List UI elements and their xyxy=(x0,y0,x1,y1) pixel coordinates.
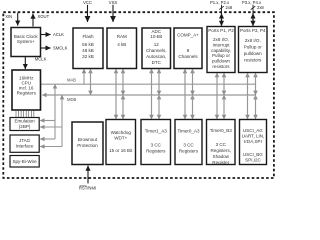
svg-text:COMP_A+: COMP_A+ xyxy=(177,32,199,37)
svg-text:MAB: MAB xyxy=(67,78,76,83)
svg-text:pulldown: pulldown xyxy=(244,51,262,56)
svg-text:VCC: VCC xyxy=(83,0,92,5)
svg-text:Registers,: Registers, xyxy=(211,148,231,153)
svg-text:Register: Register xyxy=(212,160,229,165)
svg-text:Registers: Registers xyxy=(146,149,166,154)
svg-text:Ports P1, P2: Ports P1, P2 xyxy=(208,28,234,33)
svg-text:56 kB: 56 kB xyxy=(82,42,94,47)
svg-text:MDB: MDB xyxy=(67,97,77,102)
svg-text:2x8 I/O,: 2x8 I/O, xyxy=(245,38,261,43)
svg-text:SMCLK: SMCLK xyxy=(53,46,68,51)
svg-text:Channels: Channels xyxy=(178,54,198,59)
svg-text:RAM: RAM xyxy=(117,34,127,39)
svg-text:ACLK: ACLK xyxy=(53,32,64,37)
svg-text:IrDA,SPI: IrDA,SPI xyxy=(244,139,262,144)
svg-text:JTAG: JTAG xyxy=(19,138,31,143)
svg-text:Registers: Registers xyxy=(179,149,199,154)
svg-text:2x8: 2x8 xyxy=(226,5,233,10)
svg-text:SPI,I2C: SPI,I2C xyxy=(245,157,261,162)
svg-text:2x8 I/O,: 2x8 I/O, xyxy=(213,37,229,42)
svg-text:resistors: resistors xyxy=(244,58,262,63)
svg-text:Timer0_A3: Timer0_A3 xyxy=(177,129,200,134)
svg-text:12: 12 xyxy=(154,42,160,47)
svg-text:USCI_A0:: USCI_A0: xyxy=(243,128,263,133)
svg-text:MCLK: MCLK xyxy=(35,57,47,62)
svg-text:resistors: resistors xyxy=(212,64,230,69)
svg-text:pulldown: pulldown xyxy=(212,59,230,64)
svg-text:WDT+: WDT+ xyxy=(114,135,127,140)
svg-text:48 kB: 48 kB xyxy=(82,48,94,53)
svg-text:Ports P3, P4: Ports P3, P4 xyxy=(240,28,266,33)
svg-text:RST/NMI: RST/NMI xyxy=(79,186,96,191)
svg-text:2x8: 2x8 xyxy=(257,5,264,10)
svg-text:Channels,: Channels, xyxy=(146,48,166,53)
svg-text:Pullup or: Pullup or xyxy=(244,45,262,50)
svg-text:Timer1_A3: Timer1_A3 xyxy=(145,129,168,134)
svg-text:XOUT: XOUT xyxy=(38,14,50,19)
svg-text:Shadow: Shadow xyxy=(213,154,230,159)
svg-text:Interrupt: Interrupt xyxy=(213,42,231,47)
svg-text:10-Bit: 10-Bit xyxy=(150,34,163,39)
svg-text:15 or 16 Bit: 15 or 16 Bit xyxy=(109,148,133,153)
svg-text:capability,: capability, xyxy=(211,48,231,53)
svg-text:USCI_B0:: USCI_B0: xyxy=(243,152,263,157)
svg-text:UART, LIN,: UART, LIN, xyxy=(242,133,265,138)
svg-text:3 CC: 3 CC xyxy=(151,143,162,148)
svg-text:Interface: Interface xyxy=(16,143,34,148)
svg-text:(2BP): (2BP) xyxy=(19,124,31,129)
svg-text:VSS: VSS xyxy=(109,0,118,5)
svg-text:Registers: Registers xyxy=(17,91,37,96)
svg-text:32 kB: 32 kB xyxy=(82,54,94,59)
svg-text:XIN: XIN xyxy=(5,14,12,19)
svg-text:System+: System+ xyxy=(17,39,35,44)
svg-text:Watchdog: Watchdog xyxy=(111,130,132,135)
svg-text:Emulation: Emulation xyxy=(14,119,35,124)
svg-text:Flash: Flash xyxy=(82,34,94,39)
svg-text:DTC: DTC xyxy=(152,60,162,65)
svg-text:4 kB: 4 kB xyxy=(117,42,126,47)
svg-text:Spy-Bi-Wire: Spy-Bi-Wire xyxy=(12,159,37,164)
svg-text:Protection: Protection xyxy=(77,143,98,148)
svg-text:Autoscan,: Autoscan, xyxy=(146,54,166,59)
svg-text:3 CC: 3 CC xyxy=(183,143,194,148)
svg-text:Pullup or: Pullup or xyxy=(212,53,230,58)
svg-text:Timer0_B3: Timer0_B3 xyxy=(210,128,233,133)
svg-text:3 CC: 3 CC xyxy=(216,142,227,147)
svg-text:Brownout: Brownout xyxy=(78,137,98,142)
